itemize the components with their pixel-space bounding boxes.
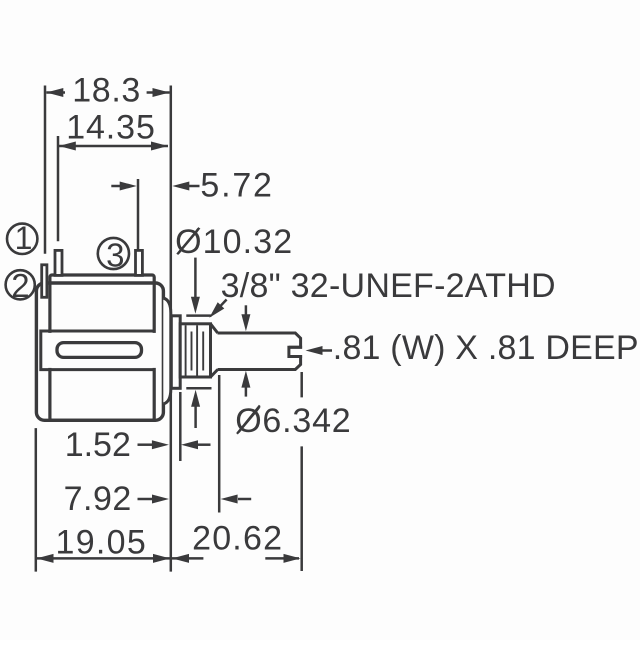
leader .81 slot xyxy=(321,349,332,352)
long extension line body right xyxy=(170,86,173,572)
terminal lug 1 (top-left) xyxy=(55,250,62,275)
threaded bushing xyxy=(180,324,210,377)
slot window in band xyxy=(57,343,142,358)
extension line shaft end xyxy=(300,372,303,571)
tick top of bushing xyxy=(186,314,211,317)
thread lines xyxy=(186,325,198,376)
svg-text:5.72: 5.72 xyxy=(200,166,273,204)
svg-text:14.35: 14.35 xyxy=(66,109,156,147)
extension line shaft start xyxy=(218,375,221,513)
leader dia 10.32 top xyxy=(194,258,197,298)
thread lines short xyxy=(192,332,204,371)
leader dia 6.342 bottom xyxy=(245,387,248,397)
svg-text:18.3: 18.3 xyxy=(72,71,141,109)
shaft with slotted end xyxy=(218,333,301,370)
terminal marker circle 2 xyxy=(6,270,35,299)
can (main body rounded rect) xyxy=(36,283,163,420)
terminal lug 2 (side-left) xyxy=(42,265,47,298)
svg-text:2: 2 xyxy=(11,267,29,304)
cover (square section of pot above/behind can) xyxy=(50,275,154,420)
extension line 14.35 left xyxy=(57,136,60,241)
taper bushing to shaft xyxy=(211,324,218,377)
svg-text:7.92: 7.92 xyxy=(64,480,132,518)
dim 1.52 arrows xyxy=(138,443,153,446)
leader 3/8 thread diagonal xyxy=(216,300,227,312)
extension line terminal-3 center xyxy=(137,179,140,250)
terminal lug 3 (top-right) xyxy=(136,250,143,275)
dim 20.62 line xyxy=(172,557,299,560)
terminal marker circle 3 xyxy=(98,238,129,269)
svg-text:Ø10.32: Ø10.32 xyxy=(175,223,293,261)
svg-text:3: 3 xyxy=(106,236,124,273)
svg-text:1.52: 1.52 xyxy=(65,426,131,464)
dim 7.92 arrows xyxy=(138,498,153,501)
dim 5.72 arrows xyxy=(111,185,121,188)
wafer right arc bulge xyxy=(163,298,171,404)
svg-text:3/8" 32-UNEF-2ATHD: 3/8" 32-UNEF-2ATHD xyxy=(221,267,556,305)
extension line flange right xyxy=(179,392,182,461)
svg-text:.81 (W) X .81 DEEP: .81 (W) X .81 DEEP xyxy=(333,329,639,367)
svg-text:Ø6.342: Ø6.342 xyxy=(235,402,351,440)
svg-text:20.62: 20.62 xyxy=(192,519,283,557)
tick bottom of bushing xyxy=(186,387,211,390)
svg-text:1: 1 xyxy=(15,220,33,256)
dim 19.05 line xyxy=(37,557,171,560)
svg-text:19.05: 19.05 xyxy=(56,523,148,561)
leader dia 10.32 bottom xyxy=(194,405,197,428)
dim 18.3 line xyxy=(46,91,169,94)
extension line 19.05 left xyxy=(35,428,38,571)
shaft slot lip extensions xyxy=(289,347,302,356)
dim 14.35 line xyxy=(59,145,168,148)
terminal marker circle 1 xyxy=(7,224,37,254)
mount flange xyxy=(171,316,180,389)
wafer band interior mask xyxy=(43,333,157,368)
extension line 18.3 left xyxy=(44,86,47,254)
wafer band xyxy=(41,331,153,370)
leader dia 6.342 top xyxy=(245,305,248,315)
